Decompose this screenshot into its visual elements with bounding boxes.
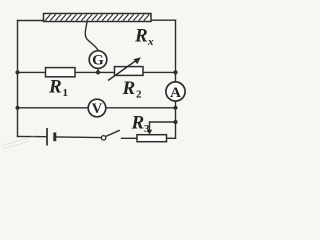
resistor R1 [46,68,76,77]
wire left vertical [17,21,19,137]
battery short plate [53,133,56,142]
rheostat R3 body [137,135,167,142]
rheostat R2 body [115,67,144,76]
wire right vertical upper [175,20,177,82]
svg-text:2: 2 [136,89,142,101]
slide-wire resistor Rx body [44,14,152,22]
wire right vertical lower [175,101,177,138]
wire R3 to right [167,137,176,139]
junction node left row1 [15,70,19,74]
wire R3 tap horizontal [150,121,176,123]
galvanometer G [89,51,107,69]
battery long plate [46,128,48,146]
rheostat R2 arrow [108,59,139,81]
svg-text:3: 3 [144,123,150,135]
wire battery to switch [56,136,101,139]
svg-text:V: V [92,101,103,117]
wire row2 voltmeter [18,107,176,109]
junction node R3 tap [173,120,177,124]
svg-text:R: R [131,113,145,134]
wire top-left stub [18,20,45,22]
svg-text:R: R [48,77,62,98]
wire top-right stub [151,19,176,21]
switch pivot [101,136,105,140]
junction node right voltmeter row [173,106,177,110]
junction node under G [96,70,100,74]
ammeter A [166,82,185,101]
svg-text:R: R [134,26,148,47]
junction node right row1 [173,70,177,74]
wire galvanometer stub [97,68,99,72]
svg-text:1: 1 [63,87,69,99]
switch blade [105,130,119,136]
svg-text:R: R [122,78,136,99]
voltmeter V [88,99,106,117]
rheostat R3 wiper arrow [149,122,151,131]
slide-wire resistor Rx hatching [45,14,149,20]
svg-text:G: G [92,53,104,69]
svg-text:x: x [147,36,154,48]
junction node left voltmeter row [15,106,19,110]
wire slider curve to G [85,22,98,51]
wire row1 [18,71,176,73]
wire bottom left [18,135,47,137]
wire switch to R3 [122,137,138,139]
svg-text:A: A [170,85,181,101]
